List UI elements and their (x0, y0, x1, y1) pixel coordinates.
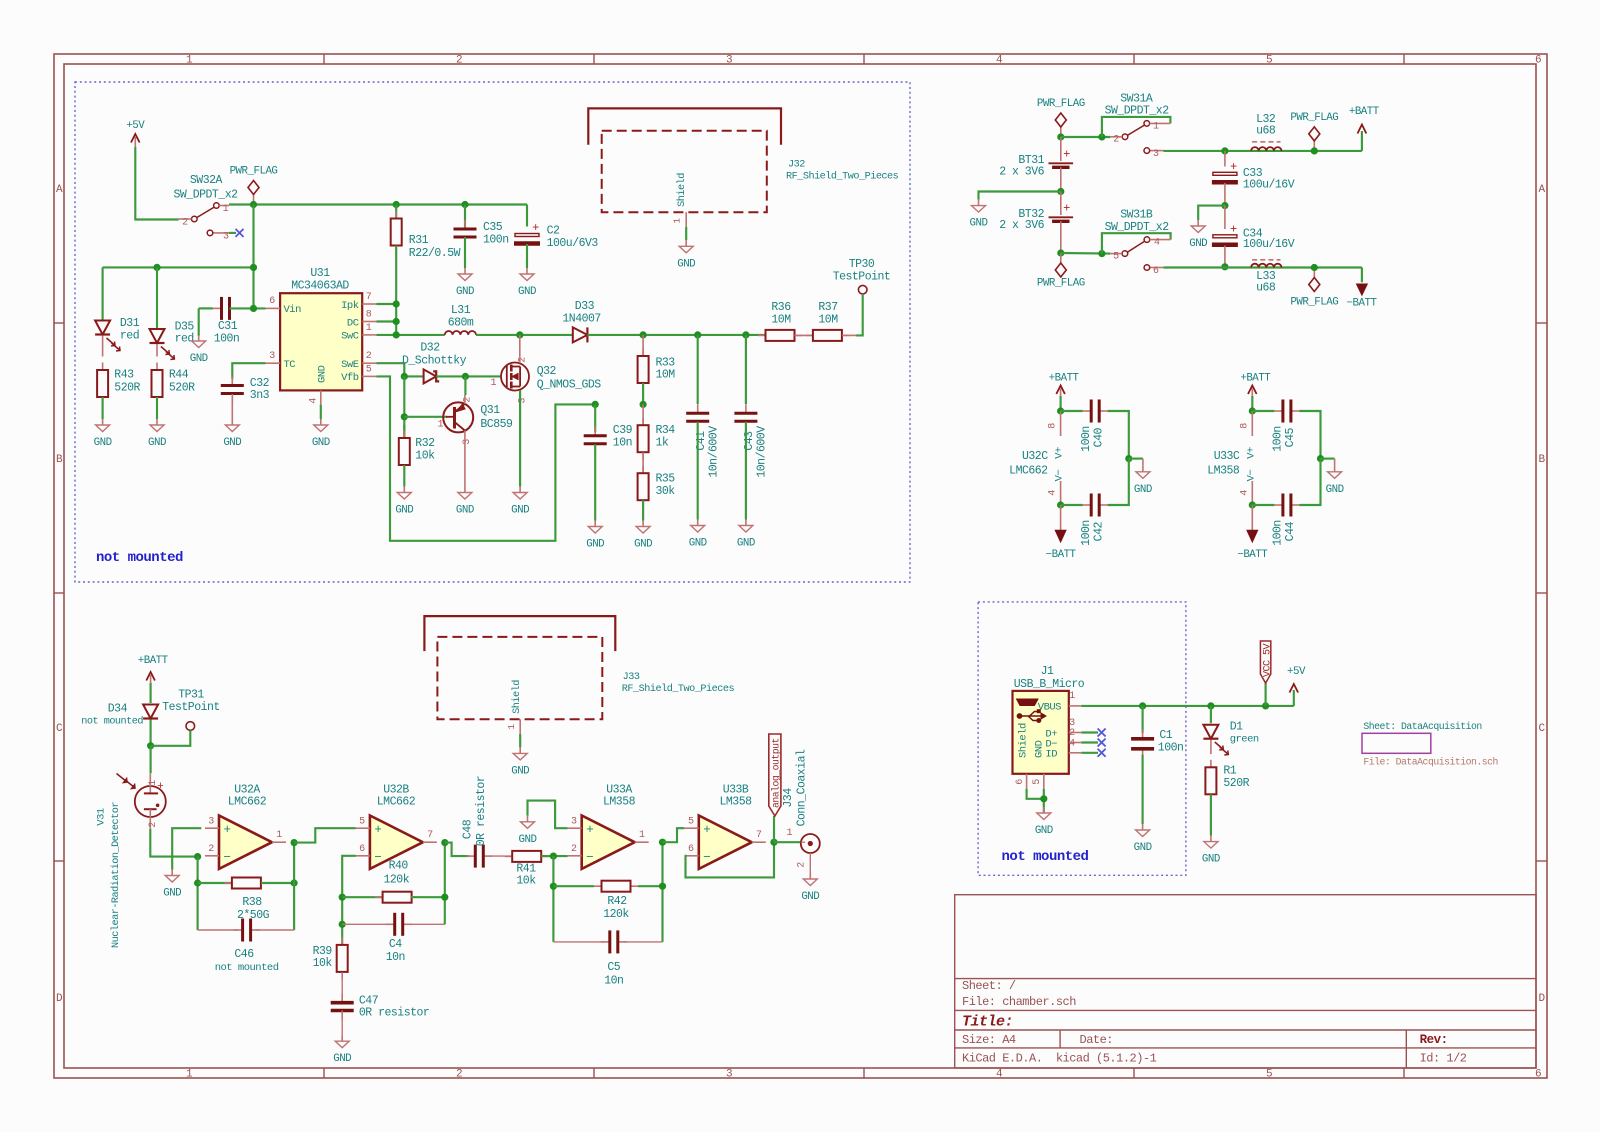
svg-text:100u/6V3: 100u/6V3 (547, 237, 599, 250)
wire R39 to C47 (341, 972, 343, 998)
wire R33 to R34 node (642, 383, 644, 404)
svg-text:U33C: U33C (1214, 450, 1240, 463)
svg-text:not mounted: not mounted (1002, 849, 1089, 865)
junction C33 top (1221, 147, 1228, 154)
svg-text:J33: J33 (623, 672, 640, 683)
power +BATT for U33C (1251, 389, 1253, 399)
junction SW31A bracket (1098, 133, 1105, 140)
svg-text:−: − (223, 850, 230, 864)
svg-text:3: 3 (571, 817, 577, 828)
svg-text:GND: GND (1326, 484, 1344, 496)
junction R33 top (640, 331, 647, 338)
svg-text:0R resistor: 0R resistor (475, 776, 488, 846)
svg-text:KiCad E.D.A. kicad (5.1.2)-1: KiCad E.D.A. kicad (5.1.2)-1 (962, 1052, 1157, 1066)
svg-text:LMC662: LMC662 (1009, 465, 1048, 478)
ground below C35 (464, 268, 466, 274)
svg-text:PWR_FLAG: PWR_FLAG (1290, 297, 1338, 309)
diode D34 (143, 705, 158, 719)
svg-text:TP30: TP30 (849, 258, 875, 271)
ground below J34 (809, 873, 811, 879)
ground below R44 (156, 419, 158, 425)
power -BATT for U33C (1251, 505, 1253, 532)
svg-text:R42: R42 (607, 895, 627, 908)
svg-text:SW_DPDT_x2: SW_DPDT_x2 (173, 188, 238, 201)
svg-text:520R: 520R (169, 382, 195, 395)
ground below J33 (519, 747, 521, 753)
svg-text:3: 3 (223, 232, 229, 243)
junction U32C V- node (1057, 501, 1064, 508)
svg-text:PWR_FLAG: PWR_FLAG (230, 166, 278, 178)
svg-text:5: 5 (1266, 55, 1272, 67)
svg-text:100u/16V: 100u/16V (1243, 178, 1295, 191)
wire +5V rail to R31 (395, 205, 397, 219)
svg-text:10M: 10M (656, 369, 676, 382)
junction U33A output (659, 839, 666, 846)
junction R38 left (194, 879, 201, 886)
wire TC to C32 (232, 363, 265, 379)
wire U32A- node down to R38 (197, 857, 199, 930)
junction BT32 bottom (1057, 249, 1064, 256)
opamp U33B (699, 816, 752, 869)
inductor L31 (445, 331, 476, 335)
svg-text:2: 2 (208, 844, 214, 855)
svg-text:Conn_Coaxial: Conn_Coaxial (796, 749, 809, 826)
wire D33 to R36 (HV output rail) (587, 334, 765, 336)
wire C35 up (464, 205, 466, 230)
svg-text:+: + (374, 823, 381, 837)
junction PWR_FLAG -BATT (1311, 264, 1318, 271)
svg-text:LM358: LM358 (1207, 465, 1240, 478)
opamp U32B (370, 816, 423, 869)
svg-text:LM358: LM358 (719, 796, 752, 809)
wire SW32A pin1 to C2 (main +5V rail) (229, 203, 527, 205)
wire C46 left (198, 929, 238, 931)
junction Q31 base node (401, 413, 408, 420)
svg-text:+BATT: +BATT (1049, 373, 1080, 385)
ground U32C (1129, 458, 1143, 460)
U31 pin 7 Ipk (362, 303, 376, 305)
svg-text:D33: D33 (575, 300, 595, 313)
svg-text:1N4007: 1N4007 (562, 312, 600, 325)
svg-text:GND: GND (395, 505, 413, 517)
svg-text:GND: GND (317, 365, 329, 383)
junction pin7 node (393, 300, 400, 307)
svg-text:+BATT: +BATT (138, 655, 169, 667)
inductor L32 (1251, 147, 1281, 151)
junction D32 anode node (401, 373, 408, 380)
svg-text:6: 6 (688, 844, 694, 855)
svg-text:L31: L31 (451, 304, 471, 317)
svg-text:100n: 100n (1272, 520, 1285, 546)
ground U33C (1321, 458, 1335, 460)
svg-text:5: 5 (359, 817, 365, 828)
svg-text:1: 1 (1153, 122, 1159, 133)
junction C1 top (1139, 702, 1146, 709)
battery BT32 (1060, 192, 1062, 216)
junction J1 gnd (1040, 795, 1047, 802)
wire LED rail (103, 266, 254, 268)
svg-text:analog_output: analog_output (771, 738, 782, 808)
svg-text:1: 1 (672, 218, 683, 224)
svg-text:PWR_FLAG: PWR_FLAG (1037, 278, 1085, 290)
resistor R36 (758, 334, 766, 336)
svg-text:100n: 100n (483, 234, 509, 247)
wire D- to NC (1081, 741, 1098, 743)
junction R40 right (441, 894, 448, 901)
wire U32A out junction down (293, 843, 295, 930)
wire VBUS rail (1081, 705, 1294, 707)
svg-text:GND: GND (1035, 825, 1053, 837)
svg-text:GND: GND (456, 505, 474, 517)
svg-text:1: 1 (787, 828, 793, 839)
svg-text:Id: 1/2: Id: 1/2 (1420, 1052, 1467, 1066)
wire SW31A pin3 to +BATT rail (1164, 150, 1362, 152)
wire D32 anode node down to Q31 base node (403, 376, 405, 438)
svg-text:B: B (1538, 454, 1545, 466)
svg-text:10n: 10n (604, 975, 623, 988)
svg-text:GND: GND (634, 539, 652, 551)
capacitor C5 (601, 941, 610, 943)
junction U32C ground node (1125, 455, 1132, 462)
junction +5V rail at R31 (393, 201, 400, 208)
svg-text:8: 8 (1048, 423, 1059, 429)
svg-text:+: + (703, 823, 710, 837)
svg-text:1: 1 (437, 420, 443, 431)
wire SW31B pin6 to -BATT rail (1164, 266, 1362, 268)
diode D33 (573, 327, 588, 342)
switch SW31A (1102, 117, 1171, 137)
svg-text:C45: C45 (1284, 428, 1297, 448)
wire U32A out to U32B+ (294, 828, 356, 842)
svg-text:GND: GND (1202, 854, 1220, 866)
wire +5V rail down to Vin node (252, 205, 254, 309)
wire C43 to ground (745, 422, 747, 520)
svg-text:+5V: +5V (1287, 666, 1306, 678)
wire C5 left (553, 941, 604, 943)
svg-text:GND: GND (223, 437, 241, 449)
svg-text:PWR_FLAG: PWR_FLAG (1290, 112, 1338, 124)
svg-text:10n/600V: 10n/600V (756, 426, 769, 478)
svg-text:USB_B_Micro: USB_B_Micro (1014, 678, 1085, 691)
wire R31 to SwC node (395, 246, 397, 335)
svg-text:3: 3 (726, 55, 732, 67)
svg-text:Nuclear-Radiation_Detector: Nuclear-Radiation_Detector (110, 802, 122, 948)
wire ID to NC (1081, 752, 1098, 754)
svg-text:10n: 10n (386, 951, 405, 964)
wire D+ to NC (1081, 731, 1098, 733)
LED D1 (1210, 706, 1212, 723)
resistor R42 (594, 885, 602, 887)
svg-text:GND: GND (689, 538, 707, 550)
svg-text:R36: R36 (771, 301, 791, 314)
capacitor C1 (1142, 706, 1144, 733)
svg-text:RF_Shield_Two_Pieces: RF_Shield_Two_Pieces (622, 683, 735, 695)
wire R32 (403, 425, 405, 439)
svg-text:1k: 1k (656, 437, 669, 450)
junction battery middle (1057, 188, 1064, 195)
svg-text:2: 2 (456, 1069, 462, 1081)
svg-text:−BATT: −BATT (1046, 549, 1077, 561)
wire D35 to R44 (156, 344, 158, 357)
capacitor C31 (213, 307, 222, 309)
svg-text:TC: TC (284, 359, 296, 371)
svg-text:3: 3 (1153, 149, 1159, 160)
svg-text:GND: GND (586, 539, 604, 551)
svg-text:1: 1 (506, 724, 517, 730)
power flag on -BATT rail (1313, 268, 1315, 278)
wire C44 to ground corner (1299, 459, 1320, 505)
connector J33 RF shield staple (424, 616, 615, 651)
wire C4 left (342, 923, 389, 925)
svg-text:C46: C46 (234, 948, 254, 961)
junction R38 right (291, 879, 298, 886)
U31 pin 8 DC (362, 321, 376, 323)
ground below Q32 (519, 487, 521, 493)
svg-text:+: + (532, 221, 539, 235)
LED D31 (95, 321, 110, 335)
wire R37 to TP30 (842, 334, 856, 336)
svg-text:1: 1 (490, 378, 496, 389)
U31 pin 2 SwE (362, 362, 376, 364)
svg-text:10n/600V: 10n/600V (707, 426, 720, 478)
battery BT31 (1060, 137, 1062, 161)
wire J1 gnd pins (1027, 789, 1044, 799)
svg-text:GND: GND (1134, 842, 1152, 854)
wire C39 to ground (594, 444, 596, 520)
wire C5 right (624, 941, 663, 943)
svg-text:B: B (56, 454, 63, 466)
wire R34 to R35 (642, 452, 644, 473)
svg-text:1: 1 (186, 55, 193, 67)
svg-text:R34: R34 (656, 424, 676, 437)
svg-text:GND: GND (1189, 238, 1207, 250)
svg-text:R31: R31 (409, 234, 429, 247)
svg-text:C42: C42 (1092, 522, 1105, 542)
wire C45 to ground corner (1299, 411, 1320, 459)
wire R41 to U33A- (541, 855, 568, 857)
IC U31 MC34063AD body (280, 293, 362, 390)
svg-text:VCC_5V: VCC_5V (1263, 643, 1274, 677)
svg-text:−: − (374, 850, 381, 864)
svg-text:3: 3 (726, 1069, 732, 1081)
J1 pin 4 ID (1069, 752, 1082, 754)
svg-text:−: − (703, 850, 710, 864)
svg-text:R44: R44 (169, 369, 189, 382)
U31 pin 5 Vfb (362, 375, 376, 377)
resistor R43 (102, 363, 104, 371)
svg-text:+BATT: +BATT (1349, 106, 1380, 118)
U31 pin 3 TC (266, 362, 281, 364)
svg-text:6: 6 (1153, 266, 1159, 277)
resistor R31 (395, 211, 397, 219)
capacitor C33 polarized (1224, 151, 1226, 167)
svg-text:100n: 100n (1080, 426, 1093, 452)
ground below C31 left (198, 335, 200, 341)
svg-text:Vfb: Vfb (341, 372, 359, 384)
svg-text:6: 6 (1535, 55, 1541, 67)
svg-text:2: 2 (148, 822, 159, 828)
svg-text:4: 4 (996, 1069, 1003, 1081)
junction C33/C34 middle (1221, 202, 1228, 209)
svg-text:C1: C1 (1159, 729, 1172, 742)
svg-text:R38: R38 (242, 896, 262, 909)
junction BT31 top (1057, 133, 1064, 140)
test point TP30 (858, 285, 867, 294)
svg-text:8: 8 (1239, 423, 1250, 429)
inductor L33 (1251, 264, 1281, 268)
svg-text:GND: GND (801, 891, 819, 903)
svg-text:Date:: Date: (1080, 1033, 1114, 1047)
junction C41 top (694, 331, 701, 338)
wire Q31 collector up (464, 395, 466, 404)
svg-text:GND: GND (519, 834, 537, 846)
svg-text:TP31: TP31 (178, 689, 204, 702)
svg-text:C35: C35 (483, 221, 503, 234)
resistor R1 (1210, 760, 1212, 768)
connector J33 RF shield dashed box (437, 637, 602, 719)
svg-text:GND: GND (677, 258, 695, 270)
capacitor C46 (234, 929, 243, 931)
svg-text:GND: GND (511, 505, 529, 517)
resistor R34 (642, 404, 644, 425)
svg-text:2: 2 (366, 351, 372, 362)
svg-text:2: 2 (462, 397, 473, 403)
ground below U31 pin4 (320, 419, 322, 425)
svg-text:R32: R32 (415, 437, 435, 450)
svg-text:120k: 120k (383, 874, 409, 887)
svg-text:GND: GND (456, 286, 474, 298)
svg-text:5: 5 (366, 365, 372, 376)
svg-text:4: 4 (309, 398, 320, 404)
ground below C47 (341, 1035, 343, 1041)
wire BT32 bottom to SW31B (1061, 252, 1111, 255)
svg-text:10k: 10k (415, 450, 435, 463)
svg-text:5: 5 (688, 817, 694, 828)
junction Vfb divider node (640, 401, 647, 408)
svg-text:2: 2 (571, 844, 577, 855)
svg-text:SwC: SwC (341, 331, 359, 343)
svg-text:BC859: BC859 (480, 418, 513, 431)
junction C39 top node (592, 401, 599, 408)
svg-text:SW31B: SW31B (1120, 209, 1153, 222)
ground below R32 (403, 487, 405, 493)
svg-text:3: 3 (462, 439, 473, 445)
svg-text:SW32A: SW32A (190, 174, 223, 187)
wire R43 to ground (102, 397, 104, 419)
svg-text:V+: V+ (1245, 447, 1257, 459)
LED D35 (150, 329, 165, 343)
svg-text:+: + (586, 823, 593, 837)
svg-text:Q32: Q32 (537, 365, 557, 378)
svg-text:1: 1 (148, 780, 159, 786)
svg-text:File: chamber.sch: File: chamber.sch (962, 995, 1076, 1009)
wire R32 to ground (403, 465, 405, 487)
wire to LED D35 (156, 267, 158, 328)
USB icon (1017, 699, 1047, 723)
power -BATT for U32C (1060, 505, 1062, 532)
power flag PWR_FLAG (+5V rail) (253, 195, 255, 205)
hierarchical sheet DataAcquisition (1362, 733, 1431, 753)
svg-text:GND: GND (148, 437, 166, 449)
svg-text:0R resistor: 0R resistor (359, 1007, 429, 1020)
svg-text:10k: 10k (313, 957, 333, 970)
svg-text:GND: GND (1134, 484, 1152, 496)
ground U33A+ input (527, 816, 529, 822)
svg-text:GND: GND (333, 1053, 351, 1065)
power +BATT (battery rail) (1361, 131, 1363, 151)
ground below J1 (1043, 807, 1045, 813)
junction Q32 drain node (516, 331, 523, 338)
svg-text:100n: 100n (1272, 426, 1285, 452)
svg-text:+: + (1063, 147, 1070, 161)
wire R42 left (553, 885, 594, 887)
J1 pin 3 D+ (1069, 732, 1082, 734)
wire R38 right (261, 882, 294, 884)
wire D34 to detector node (150, 720, 152, 746)
no-connect X on SW32A pin3 (229, 232, 236, 234)
svg-text:V+: V+ (1054, 447, 1066, 459)
wire C31 to ground leg (199, 307, 213, 309)
wire R42 right (638, 885, 663, 887)
wire U33A- node down (552, 856, 554, 942)
wire middle to ground (1198, 206, 1225, 220)
svg-text:GND: GND (163, 888, 181, 900)
wire Vfb feedback (377, 376, 596, 540)
svg-text:Shield: Shield (676, 173, 688, 207)
svg-text:red: red (120, 330, 139, 343)
ground battery filter middle (1197, 220, 1199, 226)
switch SW31B (1102, 233, 1171, 253)
svg-text:green: green (1230, 734, 1259, 746)
svg-text:D31: D31 (120, 317, 140, 330)
ground below Q31 (464, 487, 466, 493)
capacitor C2 polarized (515, 234, 539, 237)
svg-text:R37: R37 (818, 301, 837, 314)
svg-text:Size: A4: Size: A4 (962, 1033, 1016, 1047)
J1 pin 2 D- (1069, 742, 1082, 744)
title block (955, 895, 1536, 1068)
svg-text:2: 2 (1113, 135, 1119, 146)
wire D32 cathode to Q32 gate (436, 375, 501, 377)
wire R38 left (198, 882, 232, 884)
capacitor C40 (1061, 410, 1083, 412)
svg-text:3: 3 (269, 351, 275, 362)
capacitor C32 (231, 377, 233, 386)
junction C34 bottom (1221, 263, 1228, 270)
svg-text:1: 1 (276, 830, 282, 841)
svg-text:u68: u68 (1256, 125, 1276, 138)
svg-text:GND: GND (190, 353, 208, 365)
svg-text:not mounted: not mounted (96, 550, 183, 566)
svg-text:10M: 10M (771, 314, 791, 327)
svg-text:+: + (1230, 160, 1237, 174)
svg-text:5: 5 (1266, 1069, 1272, 1081)
svg-text:5: 5 (1113, 252, 1119, 263)
junction Vin node (250, 305, 257, 312)
svg-text:not mounted: not mounted (215, 962, 279, 974)
wire C31 to Vin junction (230, 307, 266, 309)
global power label VCC_5V (1265, 683, 1267, 706)
svg-text:Vin: Vin (284, 304, 302, 316)
svg-text:J32: J32 (788, 160, 805, 171)
power +5V (USB) (1290, 684, 1299, 693)
wire C41 down (697, 335, 699, 404)
svg-text:2 x 3V6: 2 x 3V6 (999, 165, 1044, 178)
svg-text:2: 2 (182, 218, 188, 229)
wire D1 to R1 (1210, 740, 1212, 754)
svg-text:GND: GND (518, 286, 536, 298)
svg-text:J34: J34 (782, 788, 795, 808)
